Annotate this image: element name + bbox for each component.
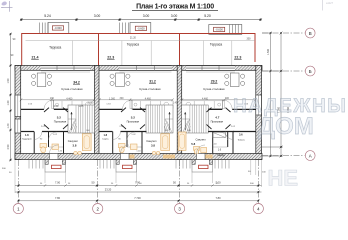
left wall	[15, 66, 21, 160]
tambour 2	[116, 160, 137, 173]
svg-text:3.00: 3.00	[171, 14, 178, 18]
tambour 1	[45, 160, 66, 173]
svg-text:Терраса: Терраса	[127, 42, 139, 46]
porch 2 box	[130, 23, 151, 34]
unit3 toilet	[194, 147, 200, 155]
svg-text:4.460: 4.460	[202, 98, 209, 101]
terrace red outline	[22, 34, 255, 66]
svg-text:300: 300	[120, 97, 125, 100]
svg-text:План 1-го этажа М 1:100: План 1-го этажа М 1:100	[136, 4, 214, 11]
svg-text:Прихожая: Прихожая	[54, 120, 67, 124]
dining table	[37, 73, 46, 87]
svg-text:В: В	[309, 31, 312, 36]
bottom dim row 3 axis	[18, 196, 260, 202]
axis circle 2	[93, 204, 103, 214]
door arcs bottom	[49, 132, 57, 140]
hall partition upper	[21, 108, 68, 110]
porch 2 steps	[120, 23, 129, 34]
terrace 3 area number	[234, 55, 242, 59]
unit2 interior geometry	[99, 73, 173, 154]
top dimension line	[21, 19, 260, 21]
hall chamfers	[44, 108, 231, 129]
unit3 sink	[201, 148, 207, 153]
small bottom corner dims	[2, 168, 266, 185]
toilet	[40, 144, 47, 153]
svg-text:7.80: 7.80	[215, 196, 221, 200]
kitchen dim lines	[21, 99, 255, 101]
svg-text:1.45: 1.45	[173, 101, 178, 104]
svg-text:29.2: 29.2	[211, 80, 218, 84]
bottom wall	[15, 154, 262, 160]
bathtub	[82, 134, 91, 151]
axis circle Б	[305, 66, 315, 76]
sink	[52, 144, 59, 150]
svg-text:21.20: 21.20	[130, 37, 137, 40]
svg-text:22.3: 22.3	[234, 55, 241, 59]
svg-text:Санузел: Санузел	[146, 139, 157, 143]
svg-text:3.8: 3.8	[73, 144, 77, 148]
svg-text:4.460: 4.460	[66, 98, 73, 101]
wardrobe partition	[33, 132, 35, 154]
svg-text:-0.600: -0.600	[54, 26, 62, 30]
svg-text:1.85: 1.85	[79, 105, 84, 108]
svg-text:Топочн.: Топочн.	[237, 140, 245, 142]
svg-text:Кухня-столовая: Кухня-столовая	[204, 87, 225, 91]
bottom wall window tints	[121, 155, 213, 159]
svg-text:Тамбур: Тамбур	[217, 155, 226, 157]
svg-text:2.50: 2.50	[7, 144, 10, 149]
svg-text:Терраса: Терраса	[49, 46, 61, 50]
terrace inner floor line	[26, 41, 256, 66]
svg-text:3.8: 3.8	[151, 144, 155, 148]
svg-text:Кухня-столовая: Кухня-столовая	[62, 87, 83, 91]
door arc hall	[44, 100, 54, 110]
unit3 closet	[213, 133, 226, 138]
svg-text:2.860: 2.860	[88, 101, 95, 104]
svg-text:5.2: 5.2	[131, 116, 136, 120]
svg-text:300: 300	[247, 38, 252, 41]
hall lower partition	[21, 131, 68, 133]
chairs	[31, 74, 51, 85]
kitchen counter	[52, 101, 95, 109]
svg-text:7.80: 7.80	[55, 196, 61, 200]
svg-text:1.500: 1.500	[267, 48, 270, 55]
bottom wall door gaps	[50, 145, 206, 160]
unit3 interior geometry mirrored	[182, 73, 256, 154]
svg-text:300: 300	[225, 97, 230, 100]
svg-text:1.40: 1.40	[7, 123, 10, 128]
svg-text:НЕ: НЕ	[268, 166, 299, 191]
svg-text:3.6: 3.6	[239, 133, 243, 137]
svg-text:-0.600: -0.600	[137, 27, 145, 31]
svg-text:4.460: 4.460	[145, 98, 152, 101]
svg-text:3.00: 3.00	[143, 14, 150, 18]
axis circle 3	[175, 204, 185, 214]
svg-text:1.8: 1.8	[103, 133, 107, 137]
left wall window	[15, 95, 21, 133]
bottom dim row 2 total	[15, 187, 262, 193]
room labels	[22, 80, 246, 158]
party wall 2	[177, 66, 182, 160]
right wall	[256, 66, 262, 160]
svg-text:4.7: 4.7	[215, 116, 220, 120]
title	[132, 4, 218, 11]
svg-text:1.8: 1.8	[25, 133, 29, 137]
axis circle В	[305, 28, 315, 38]
svg-text:22.3: 22.3	[107, 55, 114, 59]
axis column dash-dot lines	[18, 160, 258, 203]
svg-text:3.00: 3.00	[94, 14, 101, 18]
bottom extension lines	[15, 160, 262, 193]
unit1 interior geometry	[21, 73, 95, 154]
axis row letters dash-dot lines	[262, 33, 305, 156]
svg-text:2.00: 2.00	[54, 105, 59, 108]
porch 1 steps	[40, 23, 49, 34]
terrace 1 area number	[31, 55, 39, 59]
wc partition	[48, 132, 50, 148]
axis circle 4	[253, 204, 263, 214]
party wall 1	[95, 66, 100, 160]
svg-text:ДОМ: ДОМ	[258, 113, 314, 140]
bottom dim row 1	[15, 181, 262, 187]
svg-text:а1127: а1127	[326, 1, 334, 5]
svg-text:-0.600: -0.600	[215, 28, 223, 32]
svg-text:Терраса: Терраса	[210, 42, 222, 46]
tambour 3	[192, 160, 213, 173]
svg-text:34.2: 34.2	[73, 80, 80, 84]
axis circle 1	[13, 204, 23, 214]
terrace 2 area number	[107, 55, 115, 59]
svg-text:100: 100	[50, 97, 55, 100]
svg-text:1.00: 1.00	[7, 100, 10, 105]
porch 3 steps	[230, 25, 239, 35]
svg-text:Б: Б	[309, 69, 312, 74]
svg-text:Прихожая: Прихожая	[211, 120, 224, 124]
porch 1 box	[48, 23, 69, 34]
top wall window unit3	[186, 66, 235, 71]
top dim ticks	[20, 19, 261, 21]
page corner mark	[323, 0, 334, 11]
svg-text:1.000: 1.000	[109, 98, 116, 101]
svg-text:21.4: 21.4	[32, 55, 39, 59]
porch 3 elevation label	[214, 27, 225, 31]
right wall window	[256, 95, 262, 115]
porch 2 elevation label	[135, 26, 146, 30]
svg-text:Прихожая: Прихожая	[127, 120, 140, 124]
svg-text:5.2: 5.2	[57, 116, 62, 120]
svg-text:А: А	[309, 153, 312, 158]
top wall	[15, 66, 262, 71]
porch 1 elevation label	[52, 26, 63, 30]
basin pairs	[74, 151, 160, 155]
top wall window unit1	[41, 66, 90, 71]
svg-text:7.730: 7.730	[134, 196, 141, 200]
left dimension column	[10, 34, 12, 160]
top wall window unit2	[120, 66, 172, 71]
axis circle А	[305, 151, 315, 161]
top dim labels	[44, 14, 211, 18]
entry steps bottom	[29, 160, 229, 169]
corner logo watermark	[1, 1, 13, 12]
bathroom partition	[63, 132, 65, 154]
svg-text:Санузел: Санузел	[195, 138, 206, 142]
svg-text:Санузел: Санузел	[68, 139, 79, 143]
window sill lines	[41, 71, 235, 73]
svg-text:7.00: 7.00	[55, 181, 61, 185]
unit3 bathtub	[178, 132, 186, 150]
svg-text:Сауна: Сауна	[102, 139, 109, 141]
svg-text:5.24: 5.24	[44, 14, 51, 18]
tambour side stubs	[45, 160, 213, 165]
svg-text:1.90: 1.90	[7, 78, 10, 83]
svg-text:5.20: 5.20	[204, 14, 211, 18]
svg-text:Кухня-столовая: Кухня-столовая	[140, 87, 161, 91]
stairs	[68, 105, 95, 133]
interior dimension texts	[50, 97, 230, 108]
svg-text:31.2: 31.2	[149, 80, 156, 84]
right dimension columns	[262, 33, 283, 156]
svg-text:23.20: 23.20	[105, 187, 112, 191]
svg-text:Гардероб: Гардероб	[22, 139, 32, 141]
svg-text:5.8: 5.8	[191, 142, 195, 146]
porch 3 box	[209, 25, 242, 35]
